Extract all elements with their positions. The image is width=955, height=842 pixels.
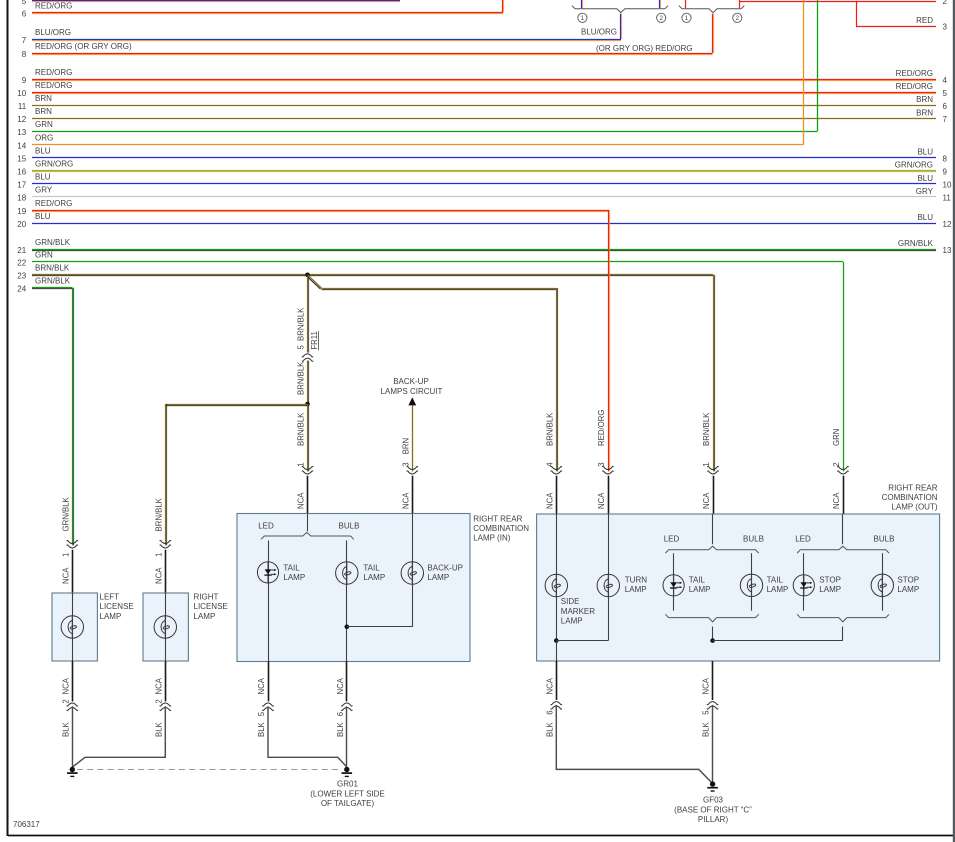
wire 23 branch BRN/BLK down to FR11 — [308, 277, 309, 353]
wire 23 BRN/BLK — [17, 264, 713, 281]
wire BLK pin5 (out) to GF03 — [712, 705, 714, 782]
LED stop lamp symbol (out) — [793, 575, 814, 596]
svg-text:NCA: NCA — [401, 492, 410, 509]
svg-text:9: 9 — [943, 168, 948, 177]
wire tail output — [712, 627, 714, 641]
LED tail lamp symbol (in) — [257, 562, 278, 583]
connector pin 2 left license lamp bottom — [61, 661, 78, 737]
svg-text:TAIL: TAIL — [283, 563, 300, 572]
svg-text:BRN/BLK: BRN/BLK — [702, 412, 711, 446]
svg-text:5: 5 — [297, 345, 306, 350]
svg-text:LAMP: LAMP — [100, 612, 122, 621]
wire 5 BLU/ORG — [22, 0, 400, 6]
svg-text:BRN/BLK: BRN/BLK — [297, 307, 306, 341]
svg-text:BRN/BLK: BRN/BLK — [545, 412, 554, 446]
svg-text:BRN/BLK: BRN/BLK — [35, 264, 70, 273]
wire BRN/BLK junction to right license — [165, 404, 307, 545]
wire 22 vertical GRN to pin 2 — [843, 262, 845, 472]
svg-text:2: 2 — [943, 0, 948, 6]
label SIDE MARKER LAMP — [561, 597, 595, 625]
right brace wire stub 2 RED — [739, 0, 741, 8]
svg-text:BLK: BLK — [702, 721, 711, 737]
svg-text:TAIL: TAIL — [767, 576, 784, 585]
wire 13 vertical to top GRN — [817, 0, 819, 131]
wire pin2 (out) to brace — [842, 514, 844, 544]
svg-text:LED: LED — [664, 535, 680, 544]
wire 24 vertical GRN/BLK to left license — [73, 288, 74, 546]
bulb tail lamp symbol (out) — [740, 574, 762, 596]
wire 20 BLU — [17, 212, 952, 229]
label 5 at FR11 — [297, 345, 306, 350]
label GF03 — [674, 796, 752, 824]
svg-text:RED/ORG: RED/ORG — [35, 199, 72, 208]
svg-text:6: 6 — [545, 710, 554, 714]
label GR01 — [310, 780, 385, 808]
wire tail LED branch — [673, 553, 675, 611]
svg-text:LAMP: LAMP — [427, 573, 449, 582]
label BLU/ORG under left brace — [581, 27, 617, 36]
svg-text:13: 13 — [17, 128, 26, 137]
svg-text:NCA: NCA — [702, 492, 711, 509]
svg-text:RIGHT: RIGHT — [194, 593, 219, 602]
left license lamp bulb — [61, 593, 83, 661]
svg-text:10: 10 — [17, 89, 26, 98]
wire 23 vertical BRN/BLK to pin 1 (out) — [714, 275, 715, 472]
svg-text:BRN: BRN — [401, 438, 410, 454]
svg-text:RED/ORG: RED/ORG — [35, 68, 72, 77]
connector pin 2 right license lamp bottom — [154, 661, 171, 737]
label LEFT LICENSE LAMP — [100, 593, 134, 621]
svg-text:BLU: BLU — [917, 213, 933, 222]
right brace pin 1 circle — [682, 13, 691, 22]
left connector brace — [572, 6, 668, 13]
svg-text:5: 5 — [702, 710, 711, 715]
svg-text:RED/ORG: RED/ORG — [35, 1, 72, 10]
svg-text:BRN: BRN — [35, 107, 52, 116]
connector pin 1 right rear combination lamp (in) — [297, 462, 314, 513]
wire tail BULB branch — [751, 553, 753, 611]
svg-text:12: 12 — [943, 220, 952, 229]
label BACK-UP LAMPS CIRCUIT — [381, 377, 443, 396]
svg-text:MARKER: MARKER — [561, 607, 595, 616]
wire 8 RED/ORG — [22, 42, 713, 59]
label TURN LAMP — [625, 576, 647, 595]
label BRN/BLK above FR11 — [297, 307, 306, 341]
wire 6 vertical to top — [503, 0, 504, 13]
svg-text:GRY: GRY — [35, 186, 53, 195]
svg-text:NCA: NCA — [154, 677, 163, 694]
wire 9 RED/ORG — [22, 68, 948, 85]
svg-text:6: 6 — [943, 102, 948, 111]
svg-text:3: 3 — [943, 23, 948, 32]
junction dot (in) bulb output — [345, 625, 350, 630]
svg-text:1: 1 — [702, 462, 711, 466]
right rear combination lamp (out) box — [537, 514, 940, 661]
right license lamp box — [143, 593, 188, 661]
left brace pin 2 circle — [657, 13, 666, 22]
wire side marker branch — [556, 514, 558, 641]
svg-text:BLK: BLK — [257, 721, 266, 737]
svg-text:NCA: NCA — [297, 492, 306, 509]
page bottom border — [8, 835, 953, 837]
wire BLK right license to ground — [73, 706, 166, 767]
svg-text:NCA: NCA — [61, 677, 70, 694]
svg-text:GRN/BLK: GRN/BLK — [35, 238, 71, 247]
svg-text:4: 4 — [545, 462, 554, 467]
svg-text:14: 14 — [17, 141, 26, 150]
svg-text:1: 1 — [685, 15, 689, 22]
wire back-up branch (in) — [412, 514, 414, 627]
connector pin 4 right rear combination lamp (out) — [545, 412, 562, 514]
svg-text:1: 1 — [297, 462, 306, 466]
svg-text:5: 5 — [257, 711, 266, 716]
svg-text:GRN/BLK: GRN/BLK — [35, 277, 71, 286]
label STOP LAMP led (out) — [819, 576, 841, 595]
wire 14 vertical to top ORG — [803, 0, 805, 145]
left license lamp box — [52, 593, 97, 661]
svg-text:BLU: BLU — [917, 174, 933, 183]
svg-text:LAMP: LAMP — [689, 585, 711, 594]
wire 13 GRN — [17, 120, 817, 137]
svg-text:TAIL: TAIL — [363, 563, 380, 572]
svg-text:GF03: GF03 — [703, 796, 724, 805]
wire BRN back-up circuit — [412, 405, 414, 471]
svg-text:BLK: BLK — [61, 721, 70, 737]
svg-text:BLU: BLU — [35, 212, 51, 221]
svg-text:NCA: NCA — [257, 677, 266, 694]
svg-text:LAMP: LAMP — [625, 585, 647, 594]
label (OR GRY ORG) RED/ORG under right brace — [596, 44, 693, 53]
svg-text:16: 16 — [17, 168, 26, 177]
svg-text:BACK-UP: BACK-UP — [393, 377, 429, 386]
wire 12 BRN — [17, 107, 947, 124]
label TAIL LAMP bulb (in) — [363, 563, 385, 582]
svg-text:(OR GRY ORG) RED/ORG: (OR GRY ORG) RED/ORG — [596, 44, 693, 53]
right rear combination lamp (in) box — [237, 514, 470, 662]
wire BLK pin6 (out) to GF03 — [556, 705, 712, 783]
svg-text:BRN: BRN — [916, 108, 933, 117]
svg-text:BLU: BLU — [35, 173, 51, 182]
label TAIL LAMP led (out) — [689, 576, 711, 595]
brace bottom tail (out) — [665, 614, 758, 622]
svg-text:(BASE OF RIGHT “C”: (BASE OF RIGHT “C” — [674, 805, 752, 814]
diagram id 706317 — [13, 820, 40, 829]
svg-text:TAIL: TAIL — [689, 576, 706, 585]
svg-text:19: 19 — [17, 207, 26, 216]
svg-text:NCA: NCA — [702, 677, 711, 694]
wire 16 GRN/ORG — [17, 160, 947, 177]
brace LED/BULB (in) — [261, 532, 354, 539]
wire 10 RED/ORG — [17, 81, 947, 98]
svg-text:1: 1 — [154, 553, 163, 557]
svg-text:BLK: BLK — [154, 721, 163, 737]
dashed ground link — [77, 769, 342, 771]
svg-text:NCA: NCA — [61, 567, 70, 584]
wire stop LED branch — [803, 553, 805, 611]
svg-text:GRN: GRN — [35, 120, 53, 129]
svg-text:PILLAR): PILLAR) — [698, 815, 729, 824]
wire BRN/BLK junction down to pin 1 (in) — [308, 404, 309, 471]
svg-text:GRY: GRY — [916, 187, 934, 196]
label BULB (in) — [339, 522, 360, 531]
svg-text:BULB: BULB — [743, 535, 764, 544]
svg-text:LAMP: LAMP — [283, 573, 305, 582]
svg-text:BLK: BLK — [336, 721, 345, 737]
wire 24 GRN/BLK — [17, 277, 72, 294]
wire 7 BLU/ORG — [22, 28, 621, 45]
svg-text:2: 2 — [61, 699, 70, 703]
svg-text:5: 5 — [943, 89, 948, 98]
svg-text:10: 10 — [943, 181, 952, 190]
svg-text:LAMP: LAMP — [819, 585, 841, 594]
svg-text:RED/ORG: RED/ORG — [35, 81, 72, 90]
svg-text:BRN/BLK: BRN/BLK — [154, 497, 163, 531]
connector pin 6 (out) bottom — [545, 661, 562, 737]
svg-text:LAMP (OUT): LAMP (OUT) — [891, 503, 937, 512]
svg-text:RIGHT REAR: RIGHT REAR — [888, 484, 937, 493]
wire pin1 (in) to brace — [307, 514, 309, 532]
wire 19 RED/ORG — [17, 199, 608, 216]
svg-text:NCA: NCA — [832, 492, 841, 509]
label STOP LAMP bulb (out) — [897, 576, 919, 595]
svg-text:11: 11 — [18, 102, 27, 111]
brace top tail (out) — [665, 546, 758, 553]
svg-text:NCA: NCA — [545, 677, 554, 694]
label RIGHT REAR COMBINATION LAMP (OUT) — [882, 484, 938, 512]
svg-text:COMBINATION: COMBINATION — [473, 524, 529, 533]
bulb turn lamp — [597, 574, 619, 596]
svg-text:COMBINATION: COMBINATION — [882, 493, 938, 502]
svg-text:BLU: BLU — [35, 146, 51, 155]
wire 2 RED top right — [740, 0, 948, 6]
wire turn to side marker junction — [556, 640, 608, 642]
wire BLK pin6 (in) to GR01 — [346, 706, 348, 767]
connector pin 3 right rear combination lamp (out) — [597, 410, 614, 514]
svg-text:GR01: GR01 — [337, 780, 358, 789]
wire 6 RED/ORG — [22, 1, 503, 18]
wire 19 vertical RED/ORG to pin 3 — [609, 210, 610, 471]
svg-text:SIDE: SIDE — [561, 597, 580, 606]
wire 23 jog diagonal BRN/BLK — [307, 275, 322, 289]
svg-text:LICENSE: LICENSE — [100, 602, 134, 611]
wire stop output — [842, 627, 844, 641]
junction dot side marker output — [554, 638, 559, 643]
wire 2-3 vertical RED — [856, 1, 858, 26]
svg-text:3: 3 — [401, 462, 410, 466]
svg-text:STOP: STOP — [897, 576, 919, 585]
svg-text:GRN/BLK: GRN/BLK — [898, 239, 934, 248]
svg-text:BLU: BLU — [917, 148, 933, 157]
bulb side marker lamp — [545, 574, 567, 596]
svg-text:8: 8 — [943, 154, 948, 163]
label BACK-UP LAMP (in) — [427, 563, 463, 582]
svg-text:GRN/BLK: GRN/BLK — [61, 496, 70, 531]
wire 22 GRN — [17, 251, 843, 268]
label LED tail (out) — [664, 535, 680, 544]
svg-text:12: 12 — [17, 115, 26, 124]
junction dot tail output — [710, 638, 715, 643]
svg-text:20: 20 — [17, 220, 26, 229]
svg-text:LAMP: LAMP — [767, 585, 789, 594]
wire 8 vertical to right brace — [713, 14, 714, 53]
svg-text:2: 2 — [736, 15, 740, 22]
svg-text:NCA: NCA — [336, 677, 345, 694]
left brace wire stub 2 BLU/ORG — [660, 0, 661, 8]
right connector brace — [679, 6, 744, 13]
svg-text:GRN: GRN — [35, 251, 53, 260]
left brace pin 1 circle — [578, 13, 587, 22]
svg-text:BRN: BRN — [35, 94, 52, 103]
connector pin 2 right rear combination lamp (out) — [832, 429, 849, 514]
svg-text:RED/ORG: RED/ORG — [896, 69, 933, 78]
svg-text:LAMP: LAMP — [194, 612, 216, 621]
svg-text:LED: LED — [795, 535, 811, 544]
svg-text:23: 23 — [17, 272, 26, 281]
wire BULB branch (in) — [346, 540, 348, 661]
LED tail lamp symbol (out) — [663, 575, 684, 596]
connector pin 1 left license lamp — [61, 496, 78, 593]
svg-text:BULB: BULB — [874, 535, 895, 544]
wire BLK pin5 (in) to GR01 — [268, 706, 347, 767]
svg-text:TURN: TURN — [625, 576, 647, 585]
connector pin 3 right rear combination lamp (in) — [401, 462, 418, 513]
wire back-up to junction (in) — [347, 626, 413, 628]
wire turn lamp branch — [608, 514, 610, 641]
svg-text:RIGHT REAR: RIGHT REAR — [473, 514, 522, 523]
svg-text:(LOWER LEFT SIDE: (LOWER LEFT SIDE — [310, 789, 385, 798]
label TAIL LAMP led (in) — [283, 563, 305, 582]
wire pin1 (out) to brace — [712, 514, 714, 544]
svg-text:21: 21 — [17, 246, 26, 255]
wire 11 BRN — [18, 94, 948, 111]
label FR11 — [310, 331, 319, 350]
svg-text:2: 2 — [154, 699, 163, 703]
svg-text:LED: LED — [258, 522, 274, 531]
wire 14 ORG — [17, 133, 803, 150]
ground GR01 — [342, 767, 353, 777]
label BULB stop (out) — [874, 535, 895, 544]
svg-text:6: 6 — [336, 712, 345, 716]
svg-text:BULB: BULB — [339, 522, 360, 531]
connector pin 6 (in) bottom — [336, 661, 353, 737]
label RIGHT REAR COMBINATION LAMP (IN) — [473, 514, 529, 542]
svg-text:GRN/ORG: GRN/ORG — [35, 160, 73, 169]
wire 18 GRY — [17, 186, 951, 203]
right brace pin 2 circle — [733, 13, 742, 22]
svg-text:8: 8 — [22, 50, 27, 59]
svg-text:GRN/ORG: GRN/ORG — [895, 161, 933, 170]
svg-text:BLU/ORG: BLU/ORG — [581, 27, 617, 36]
svg-text:BACK-UP: BACK-UP — [427, 563, 463, 572]
right brace wire stub 1 RED — [685, 0, 687, 8]
svg-text:17: 17 — [17, 181, 26, 190]
svg-text:5: 5 — [22, 0, 27, 6]
label RIGHT LICENSE LAMP — [194, 593, 228, 621]
svg-text:1: 1 — [581, 15, 585, 22]
svg-text:LAMP: LAMP — [561, 617, 583, 626]
svg-text:13: 13 — [943, 246, 952, 255]
label BULB tail (out) — [743, 535, 764, 544]
bulb tail lamp symbol (in) — [336, 562, 358, 584]
svg-text:BRN: BRN — [916, 95, 933, 104]
svg-text:7: 7 — [22, 36, 27, 45]
wire 15 BLU — [17, 146, 947, 163]
brace top stop (out) — [797, 546, 889, 553]
bulb stop lamp symbol (out) — [871, 574, 893, 596]
svg-text:7: 7 — [943, 115, 948, 124]
svg-text:LAMP: LAMP — [897, 585, 919, 594]
wire stop to tail junction — [713, 640, 843, 642]
svg-text:RED/ORG: RED/ORG — [896, 82, 933, 91]
left brace wire stub 1 BLU/ORG — [582, 0, 583, 8]
svg-text:22: 22 — [17, 259, 26, 268]
wire 21 GRN/BLK — [17, 238, 952, 255]
page right gray bar — [953, 0, 955, 842]
svg-text:24: 24 — [17, 285, 26, 294]
svg-text:FR11: FR11 — [310, 331, 319, 350]
connector pin 5 (in) bottom — [257, 661, 274, 737]
svg-text:NCA: NCA — [597, 492, 606, 509]
label BRN/BLK at pin 1 (in) — [297, 412, 306, 446]
svg-text:RED: RED — [916, 16, 933, 25]
svg-text:RED/ORG: RED/ORG — [597, 410, 606, 446]
svg-text:11: 11 — [943, 194, 952, 203]
ground GF03 — [707, 781, 718, 791]
svg-text:NCA: NCA — [545, 492, 554, 509]
label BRN at pin 3 (in) — [401, 438, 410, 454]
svg-text:OF TAILGATE): OF TAILGATE) — [321, 799, 375, 808]
svg-text:18: 18 — [17, 194, 26, 203]
connector pin 5 (out) bottom — [702, 661, 719, 737]
svg-text:BLU/ORG: BLU/ORG — [35, 28, 71, 37]
svg-text:BLK: BLK — [545, 721, 554, 737]
svg-text:LICENSE: LICENSE — [194, 602, 228, 611]
connector pin 1 right rear combination lamp (out) — [702, 412, 719, 514]
inline connector FR11 — [302, 354, 313, 362]
svg-text:2: 2 — [659, 15, 663, 22]
bulb back-up lamp symbol (in) — [401, 562, 423, 584]
junction dot wire 23 — [305, 273, 310, 278]
label LED (in) — [258, 522, 274, 531]
wire 23 branch BRN/BLK to pin 4 — [322, 288, 558, 471]
label TAIL LAMP bulb (out) — [767, 576, 789, 595]
ground G (tailgate left) — [67, 767, 78, 777]
svg-text:LAMP: LAMP — [363, 573, 385, 582]
svg-text:LEFT: LEFT — [100, 593, 120, 602]
label BRN/BLK below FR11 — [297, 361, 306, 395]
right license lamp bulb — [154, 593, 176, 661]
wire side marker output — [556, 641, 558, 661]
svg-text:ORG: ORG — [35, 133, 53, 142]
svg-text:2: 2 — [832, 462, 841, 466]
wire 3 RED — [856, 16, 948, 32]
wire BRN/BLK FR11 to junction — [308, 361, 309, 404]
connector pin 1 right license lamp — [154, 497, 171, 593]
svg-text:RED/ORG (OR GRY ORG): RED/ORG (OR GRY ORG) — [35, 42, 132, 51]
svg-text:LAMP (IN): LAMP (IN) — [473, 534, 511, 543]
wire stop BULB branch — [882, 553, 884, 611]
svg-text:1: 1 — [61, 553, 70, 557]
svg-text:GRN: GRN — [832, 429, 841, 446]
wire LED branch (in) — [268, 540, 270, 661]
svg-text:6: 6 — [22, 9, 27, 18]
svg-text:LAMPS CIRCUIT: LAMPS CIRCUIT — [381, 387, 443, 396]
svg-text:706317: 706317 — [13, 820, 40, 829]
svg-text:15: 15 — [17, 154, 26, 163]
wire BLK left license to ground — [72, 706, 74, 767]
svg-text:STOP: STOP — [819, 576, 841, 585]
svg-text:NCA: NCA — [154, 567, 163, 584]
